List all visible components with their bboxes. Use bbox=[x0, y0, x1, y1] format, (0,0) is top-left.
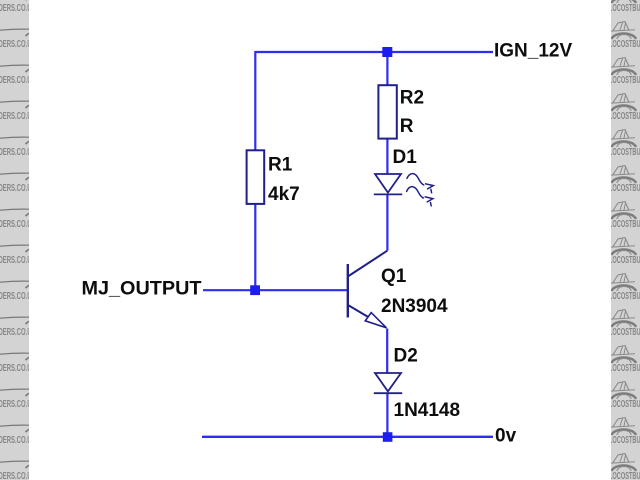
svg-text:LOCOSTBUIL: LOCOSTBUIL bbox=[609, 183, 640, 194]
svg-text:DERS.CO.U: DERS.CO.U bbox=[0, 327, 32, 338]
svg-text:DERS.CO.U: DERS.CO.U bbox=[0, 363, 32, 374]
LED light ray arrows bbox=[407, 174, 434, 206]
wire R2 to D1 bbox=[386, 138, 388, 175]
svg-text:LOCOSTBUIL: LOCOSTBUIL bbox=[609, 435, 640, 446]
svg-text:DERS.CO.U: DERS.CO.U bbox=[0, 399, 32, 410]
diode D1 (LED) bbox=[374, 174, 402, 194]
svg-text:DERS.CO.U: DERS.CO.U bbox=[0, 183, 32, 194]
svg-text:D1: D1 bbox=[393, 147, 418, 168]
svg-text:LOCOSTBUIL: LOCOSTBUIL bbox=[609, 399, 640, 410]
svg-text:R: R bbox=[400, 116, 414, 137]
svg-text:DERS.CO.U: DERS.CO.U bbox=[0, 435, 32, 446]
svg-text:Q1: Q1 bbox=[381, 266, 407, 287]
wire R1 top bbox=[254, 51, 256, 151]
svg-text:LOCOSTBUIL: LOCOSTBUIL bbox=[609, 75, 640, 86]
svg-text:1N4148: 1N4148 bbox=[394, 400, 461, 421]
svg-text:0v: 0v bbox=[495, 426, 517, 447]
wire MJ_OUTPUT to base bbox=[203, 289, 348, 291]
svg-text:IGN_12V: IGN_12V bbox=[494, 41, 572, 62]
svg-text:DERS.CO.U: DERS.CO.U bbox=[0, 219, 32, 230]
svg-text:LOCOSTBUIL: LOCOSTBUIL bbox=[609, 255, 640, 266]
svg-text:DERS.CO.U: DERS.CO.U bbox=[0, 39, 32, 50]
resistor R1 bbox=[247, 150, 265, 204]
transistor Q1 bbox=[348, 251, 388, 328]
diode D2 bbox=[374, 373, 402, 393]
junction base node bbox=[250, 285, 260, 295]
wire R1 bottom to junction bbox=[254, 204, 256, 291]
svg-text:DERS.CO.U: DERS.CO.U bbox=[0, 471, 32, 480]
svg-text:LOCOSTBUIL: LOCOSTBUIL bbox=[609, 147, 640, 158]
junction top rail bbox=[382, 47, 392, 57]
svg-text:DERS.CO.U: DERS.CO.U bbox=[0, 255, 32, 266]
wire R2 top bbox=[386, 52, 388, 86]
svg-text:DERS.CO.U: DERS.CO.U bbox=[0, 75, 32, 86]
svg-text:LOCOSTBUIL: LOCOSTBUIL bbox=[609, 363, 640, 374]
svg-text:R2: R2 bbox=[400, 87, 424, 108]
svg-text:4k7: 4k7 bbox=[268, 184, 300, 205]
svg-text:MJ_OUTPUT: MJ_OUTPUT bbox=[82, 279, 202, 300]
wire D1 to collector bbox=[386, 195, 388, 251]
wire bottom rail bbox=[202, 436, 493, 438]
svg-text:LOCOSTBUIL: LOCOSTBUIL bbox=[609, 39, 640, 50]
svg-text:LOCOSTBUIL: LOCOSTBUIL bbox=[609, 471, 640, 480]
svg-text:LOCOSTBUIL: LOCOSTBUIL bbox=[609, 3, 640, 14]
svg-text:LOCOSTBUIL: LOCOSTBUIL bbox=[609, 327, 640, 338]
svg-text:R1: R1 bbox=[268, 155, 293, 176]
resistor R2 bbox=[378, 85, 396, 138]
svg-text:2N3904: 2N3904 bbox=[381, 296, 448, 317]
svg-text:DERS.CO.U: DERS.CO.U bbox=[0, 3, 32, 14]
wire emitter to D2 bbox=[386, 329, 388, 373]
svg-text:LOCOSTBUIL: LOCOSTBUIL bbox=[609, 111, 640, 122]
emitter arrowhead bbox=[365, 313, 386, 328]
svg-text:DERS.CO.U: DERS.CO.U bbox=[0, 291, 32, 302]
svg-text:D2: D2 bbox=[394, 346, 418, 367]
svg-text:DERS.CO.U: DERS.CO.U bbox=[0, 111, 32, 122]
wire top rail bbox=[255, 51, 493, 53]
svg-text:LOCOSTBUIL: LOCOSTBUIL bbox=[609, 291, 640, 302]
junction bottom rail bbox=[383, 432, 393, 442]
wire D2 to bottom rail bbox=[386, 394, 388, 437]
svg-text:DERS.CO.U: DERS.CO.U bbox=[0, 147, 32, 158]
svg-text:LOCOSTBUIL: LOCOSTBUIL bbox=[609, 219, 640, 230]
